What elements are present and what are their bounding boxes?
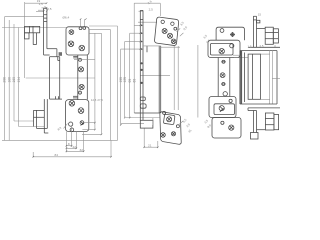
middle dim 21 [144, 129, 158, 148]
right side flap box bottom [265, 113, 274, 130]
right upper A hole 2 [230, 32, 235, 37]
bottom dim 8 [66, 125, 71, 152]
bottom plate hole D [69, 122, 73, 126]
middle plate hole b3 [171, 39, 176, 44]
right bar hole b2 [223, 92, 227, 96]
top reference line [5, 16, 44, 18]
middle pivot foot [140, 120, 153, 128]
right side small rect top [273, 29, 278, 43]
middle ext x152.9 [152, 118, 154, 125]
svg-text:186: 186 [7, 77, 11, 83]
right upper B hole 1 [219, 49, 224, 54]
dim y134.4 [82, 133, 102, 135]
bottom plate hole E [70, 128, 74, 132]
middle bar [143, 46, 180, 113]
side view frame plate [25, 26, 40, 44]
middle dim stack line a [119, 49, 141, 125]
right fig rotated labels bottom [203, 118, 212, 129]
bar hole big 1 [78, 67, 83, 72]
bottom dim 32 [66, 132, 83, 152]
gray ext right of middle [197, 45, 199, 118]
hinge leaf edge-on [240, 51, 243, 104]
section outer box [240, 51, 277, 104]
svg-text:12,5: 12,5 [91, 98, 97, 102]
door section bottom lines [240, 104, 280, 108]
left dim stack line 186 [7, 20, 11, 140]
right fig rotated labels top [202, 34, 211, 45]
screw hole C [79, 45, 85, 51]
bar top notch [257, 20, 260, 23]
middle dim y123.6 [121, 123, 144, 125]
pivot lug 2 [140, 104, 146, 108]
middle plate hole s2 [171, 22, 174, 25]
svg-text:134: 134 [17, 77, 21, 83]
svg-text:27,5: 27,5 [97, 98, 103, 102]
svg-text:65: 65 [132, 79, 136, 83]
front view bar [73, 55, 87, 100]
top dim 19 [25, 0, 47, 78]
side view lower bracket [34, 110, 48, 128]
bottom plate hole B [78, 108, 84, 114]
right side view bar top [253, 16, 256, 47]
dimension arrow ticks [32, 2, 158, 157]
bottom connector [257, 129, 266, 131]
middle dim stack line b [123, 42, 140, 118]
v-ext x101.5 [101, 33, 103, 134]
door section gray dims [233, 55, 248, 58]
svg-text:2,5: 2,5 [260, 44, 264, 48]
bottom dim 84 [33, 140, 111, 157]
right lower B holes [221, 121, 234, 130]
dim y129.6 [82, 129, 95, 131]
right lower A holes [219, 99, 232, 112]
pocket shelf lines [261, 51, 273, 104]
front view bottom plate [66, 100, 89, 132]
bottom plate hole C [80, 121, 84, 126]
side view pivot ladder [44, 8, 47, 55]
dim y33.4 [89, 32, 102, 34]
middle dim stack line d [132, 3, 140, 113]
bottom dim 22 [66, 132, 76, 150]
left dim stack line 160 [12, 24, 16, 121]
extension line plate top [2, 27, 66, 29]
top dim 4 [42, 6, 47, 8]
top dim over section [258, 13, 262, 17]
middle plate hole b1 [162, 29, 167, 34]
dim y26 [89, 25, 118, 27]
middle plate hole d1 [174, 27, 177, 30]
svg-text:2,5: 2,5 [47, 7, 52, 11]
right side connector top [257, 27, 266, 29]
side view door channel [50, 57, 60, 99]
middle bottom holes [161, 111, 180, 137]
middle bottom dim text [179, 118, 193, 134]
section top labels [248, 44, 277, 48]
right bar hole d2 [221, 83, 225, 86]
middle ext y117.5 [126, 117, 160, 119]
svg-text:206: 206 [3, 77, 7, 83]
extension line mid [26, 77, 95, 79]
right bar hole d1 [221, 60, 225, 63]
dim line y11.7 [36, 11, 44, 13]
bar hole big 2 [79, 84, 84, 89]
middle bottom plate [160, 111, 181, 144]
middle ext y22.2 [138, 21, 157, 23]
bar hole small 1 [74, 58, 95, 61]
svg-text:95: 95 [128, 79, 132, 83]
v-ext x94.9 [94, 33, 96, 129]
svg-text:Ø6,4: Ø6,4 [63, 15, 70, 19]
side view jog [44, 49, 57, 57]
leader R3 [57, 124, 68, 132]
svg-text:15: 15 [258, 13, 262, 17]
knuckle dots [141, 25, 143, 85]
extension line y121 [14, 120, 34, 122]
svg-text:2,5: 2,5 [149, 7, 154, 11]
screw hole A [69, 30, 74, 35]
svg-text:1,5: 1,5 [248, 45, 252, 49]
right side flap box top [265, 27, 273, 44]
bottom plate hole A [69, 101, 75, 107]
bar bottom bracket [73, 96, 78, 98]
v-ext x110.6 [110, 30, 112, 141]
middle dim stack line c [128, 33, 140, 118]
door section top lines [240, 47, 280, 50]
right side bar bottom [248, 108, 257, 133]
right side foot [251, 133, 259, 140]
right fig bar [218, 58, 230, 97]
right fig upper plate A [216, 27, 244, 40]
side view channel bottom [50, 96, 62, 99]
dim y29.7 [89, 29, 111, 31]
right upper B hole 2 [230, 44, 234, 48]
middle plate hole s1 [161, 20, 164, 23]
pocket rect [248, 54, 261, 99]
side view lower leg [44, 99, 48, 133]
svg-text:1,5: 1,5 [39, 2, 44, 6]
right fig upper plate B [208, 40, 240, 57]
small hole pair top [79, 27, 86, 30]
bar hole small 2 [79, 90, 82, 95]
right side small rect bottom [274, 115, 279, 130]
svg-text:125: 125 [123, 77, 127, 83]
front view top plate [66, 27, 89, 55]
extension line y126.5 [19, 126, 45, 128]
side view dark strip [59, 52, 62, 56]
svg-text:160: 160 [12, 77, 16, 83]
right fig lower plate B [212, 118, 241, 139]
svg-text:8: 8 [68, 142, 70, 146]
extension above plate [81, 19, 85, 27]
svg-text:32: 32 [80, 148, 84, 152]
mortise line [244, 53, 246, 103]
middle top plate [154, 17, 179, 46]
middle pivot bar [140, 10, 143, 120]
svg-text:84: 84 [55, 153, 59, 157]
left dim stack line 134 [17, 28, 21, 127]
svg-text:22: 22 [73, 145, 77, 149]
svg-text:21: 21 [148, 144, 152, 148]
middle top dim [134, 0, 160, 16]
gray hole extension lines [174, 46, 178, 110]
middle plate hole b2 [168, 33, 173, 38]
v-ext x117.5 [117, 26, 119, 140]
left dim stack line 206 [3, 17, 7, 141]
middle dim text 3,5 9,5 [177, 21, 189, 37]
middle center ext [140, 75, 170, 77]
pivot lug 1 [140, 97, 145, 100]
right bar hole b1 [220, 73, 225, 78]
right upper A hole 1 [220, 29, 224, 33]
label 2.5 [38, 7, 52, 11]
dim y122.6 [84, 122, 95, 124]
screw hole B [68, 41, 74, 47]
right center tick [272, 77, 280, 79]
bottom reference line [2, 139, 118, 141]
right fig lower plate A [209, 97, 236, 118]
pivot shelf [134, 112, 160, 114]
